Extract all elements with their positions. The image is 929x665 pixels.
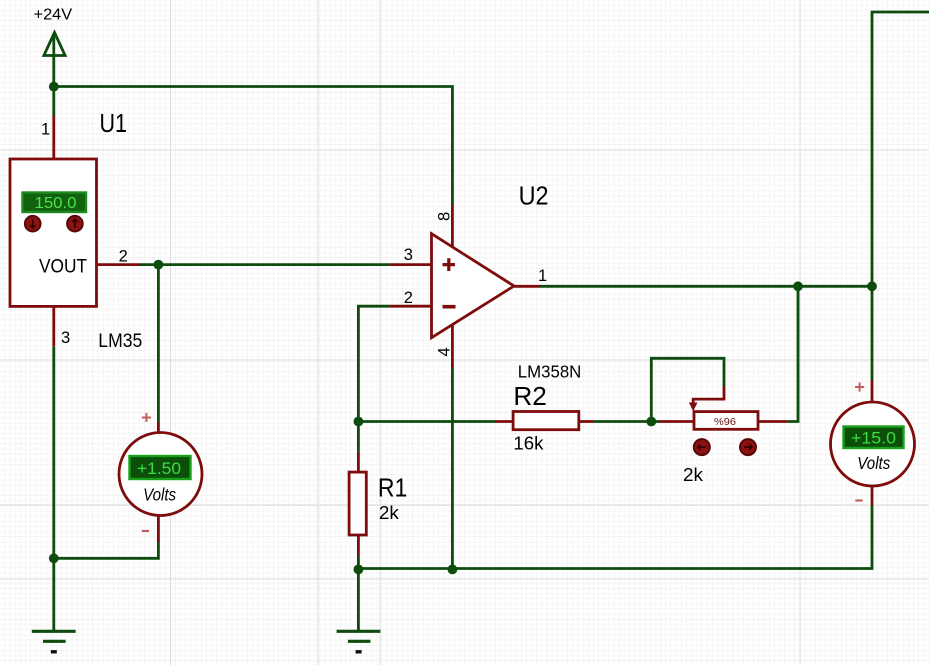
wire U1 pin1 green — [52, 87, 55, 116]
voltmeter VM1 minus sign — [142, 530, 149, 532]
R2 right pin stub — [579, 420, 593, 423]
wire RV1 wiper loop green part — [651, 358, 724, 421]
LM35 body U1 — [10, 159, 97, 306]
wire top rail — [54, 87, 453, 205]
svg-text:8: 8 — [436, 212, 454, 221]
wire right rail from top — [872, 12, 929, 380]
RV1 right button — [740, 439, 756, 455]
node R1 ground junction — [354, 565, 364, 575]
voltmeter VM2 display — [844, 427, 904, 449]
pin 4 stub U2 — [451, 325, 454, 369]
op-amp plus input mark — [443, 258, 456, 271]
svg-text:%96: %96 — [714, 416, 736, 428]
svg-text:1: 1 — [41, 121, 50, 139]
svg-text:VOUT: VOUT — [39, 256, 87, 277]
pin 3 stub U1 bottom — [52, 306, 55, 346]
svg-text:1: 1 — [538, 267, 547, 285]
voltmeter VM2 plus sign — [855, 383, 864, 392]
pin 1 stub U2 output — [514, 285, 540, 288]
RV1 left button — [694, 439, 710, 455]
wire R2 to pot node — [593, 420, 651, 423]
svg-text:150.0: 150.0 — [35, 195, 77, 212]
svg-text:+15.0: +15.0 — [851, 430, 896, 448]
op-amp U2 — [432, 234, 515, 338]
svg-text:R1: R1 — [378, 472, 408, 502]
op-amp minus input mark — [443, 305, 456, 309]
voltmeter VM1 top pin — [157, 422, 160, 434]
node U2 pin4 ground junction — [448, 565, 458, 575]
node output junction A — [793, 281, 803, 291]
pin 8 stub U2 — [451, 205, 454, 248]
voltmeter VM2 minus sign — [855, 499, 862, 501]
wire U2 minus input — [389, 305, 431, 308]
voltmeter VM1 body — [119, 433, 202, 516]
ground GND2 — [337, 631, 381, 652]
wire minus input to feedback node — [358, 306, 389, 421]
resistor R1 — [349, 472, 366, 535]
R2 left pin stub — [495, 420, 513, 423]
node ground net junction — [49, 553, 59, 563]
power arrow symbol — [44, 33, 65, 87]
RV1 wiper arrowhead — [689, 403, 698, 412]
wire feedback from output — [787, 286, 798, 421]
voltmeter VM1 display — [130, 456, 191, 479]
svg-text:Volts: Volts — [857, 453, 890, 473]
ground GND1 — [32, 631, 76, 652]
pin 1 stub U1 — [52, 116, 55, 160]
node power junction — [49, 82, 59, 92]
svg-text:LM35: LM35 — [98, 330, 142, 352]
svg-text:U2: U2 — [519, 181, 549, 211]
voltmeter VM2 body — [831, 402, 915, 486]
svg-text:2k: 2k — [379, 502, 400, 523]
svg-text:4: 4 — [436, 347, 454, 356]
svg-text:2: 2 — [404, 289, 413, 307]
voltmeter VM1 bottom pin — [157, 515, 160, 542]
node pot junction — [646, 417, 656, 427]
resistor R2 — [513, 412, 579, 430]
pin 2 stub U1 — [97, 263, 141, 266]
R1 top pin wire — [357, 422, 360, 452]
voltmeter VM2 top pin — [871, 380, 874, 402]
svg-text:Volts: Volts — [143, 484, 176, 504]
LM35 up button — [67, 216, 83, 232]
node VOUT junction — [154, 260, 164, 270]
voltmeter VM2 bottom pin — [871, 486, 874, 506]
wire feedback node to R2 — [358, 420, 495, 423]
svg-text:+24V: +24V — [34, 7, 73, 24]
pin 3 stub U2 — [389, 263, 431, 266]
svg-text:U1: U1 — [100, 108, 128, 138]
wire pot node to RV1 — [651, 420, 660, 423]
wire bottom ground rail — [358, 506, 872, 569]
wire U2 pin4 down — [451, 368, 454, 569]
node output junction B — [867, 281, 877, 291]
wire output — [540, 285, 872, 288]
wire U1 pin3 to ground — [52, 346, 55, 631]
svg-text:+1.50: +1.50 — [137, 460, 181, 478]
svg-text:3: 3 — [404, 246, 413, 264]
RV1 wiper stub maroon — [693, 386, 724, 405]
wire R1 bottom to ground net — [357, 556, 360, 570]
svg-text:2: 2 — [119, 248, 128, 266]
wire VOUT to op-amp — [140, 263, 389, 266]
RV1 left pin stub — [660, 420, 694, 423]
node feedback junction — [354, 417, 364, 427]
R1 top pin stub — [357, 451, 360, 472]
RV1 right pin stub — [758, 420, 787, 423]
svg-text:16k: 16k — [513, 433, 544, 454]
voltmeter VM1 plus sign — [142, 413, 151, 422]
wire VM1 to ground net — [54, 542, 159, 558]
LM35 down button — [25, 216, 41, 232]
potentiometer RV1 body — [694, 412, 758, 430]
svg-text:2k: 2k — [683, 464, 704, 485]
R1 bottom pin stub — [357, 535, 360, 556]
svg-text:R2: R2 — [513, 381, 547, 411]
wire ground2 drop — [357, 569, 360, 632]
wire VOUT node down to voltmeter — [157, 265, 160, 422]
svg-text:LM358N: LM358N — [518, 362, 582, 382]
svg-text:3: 3 — [61, 329, 70, 347]
LM35 display — [23, 193, 87, 213]
